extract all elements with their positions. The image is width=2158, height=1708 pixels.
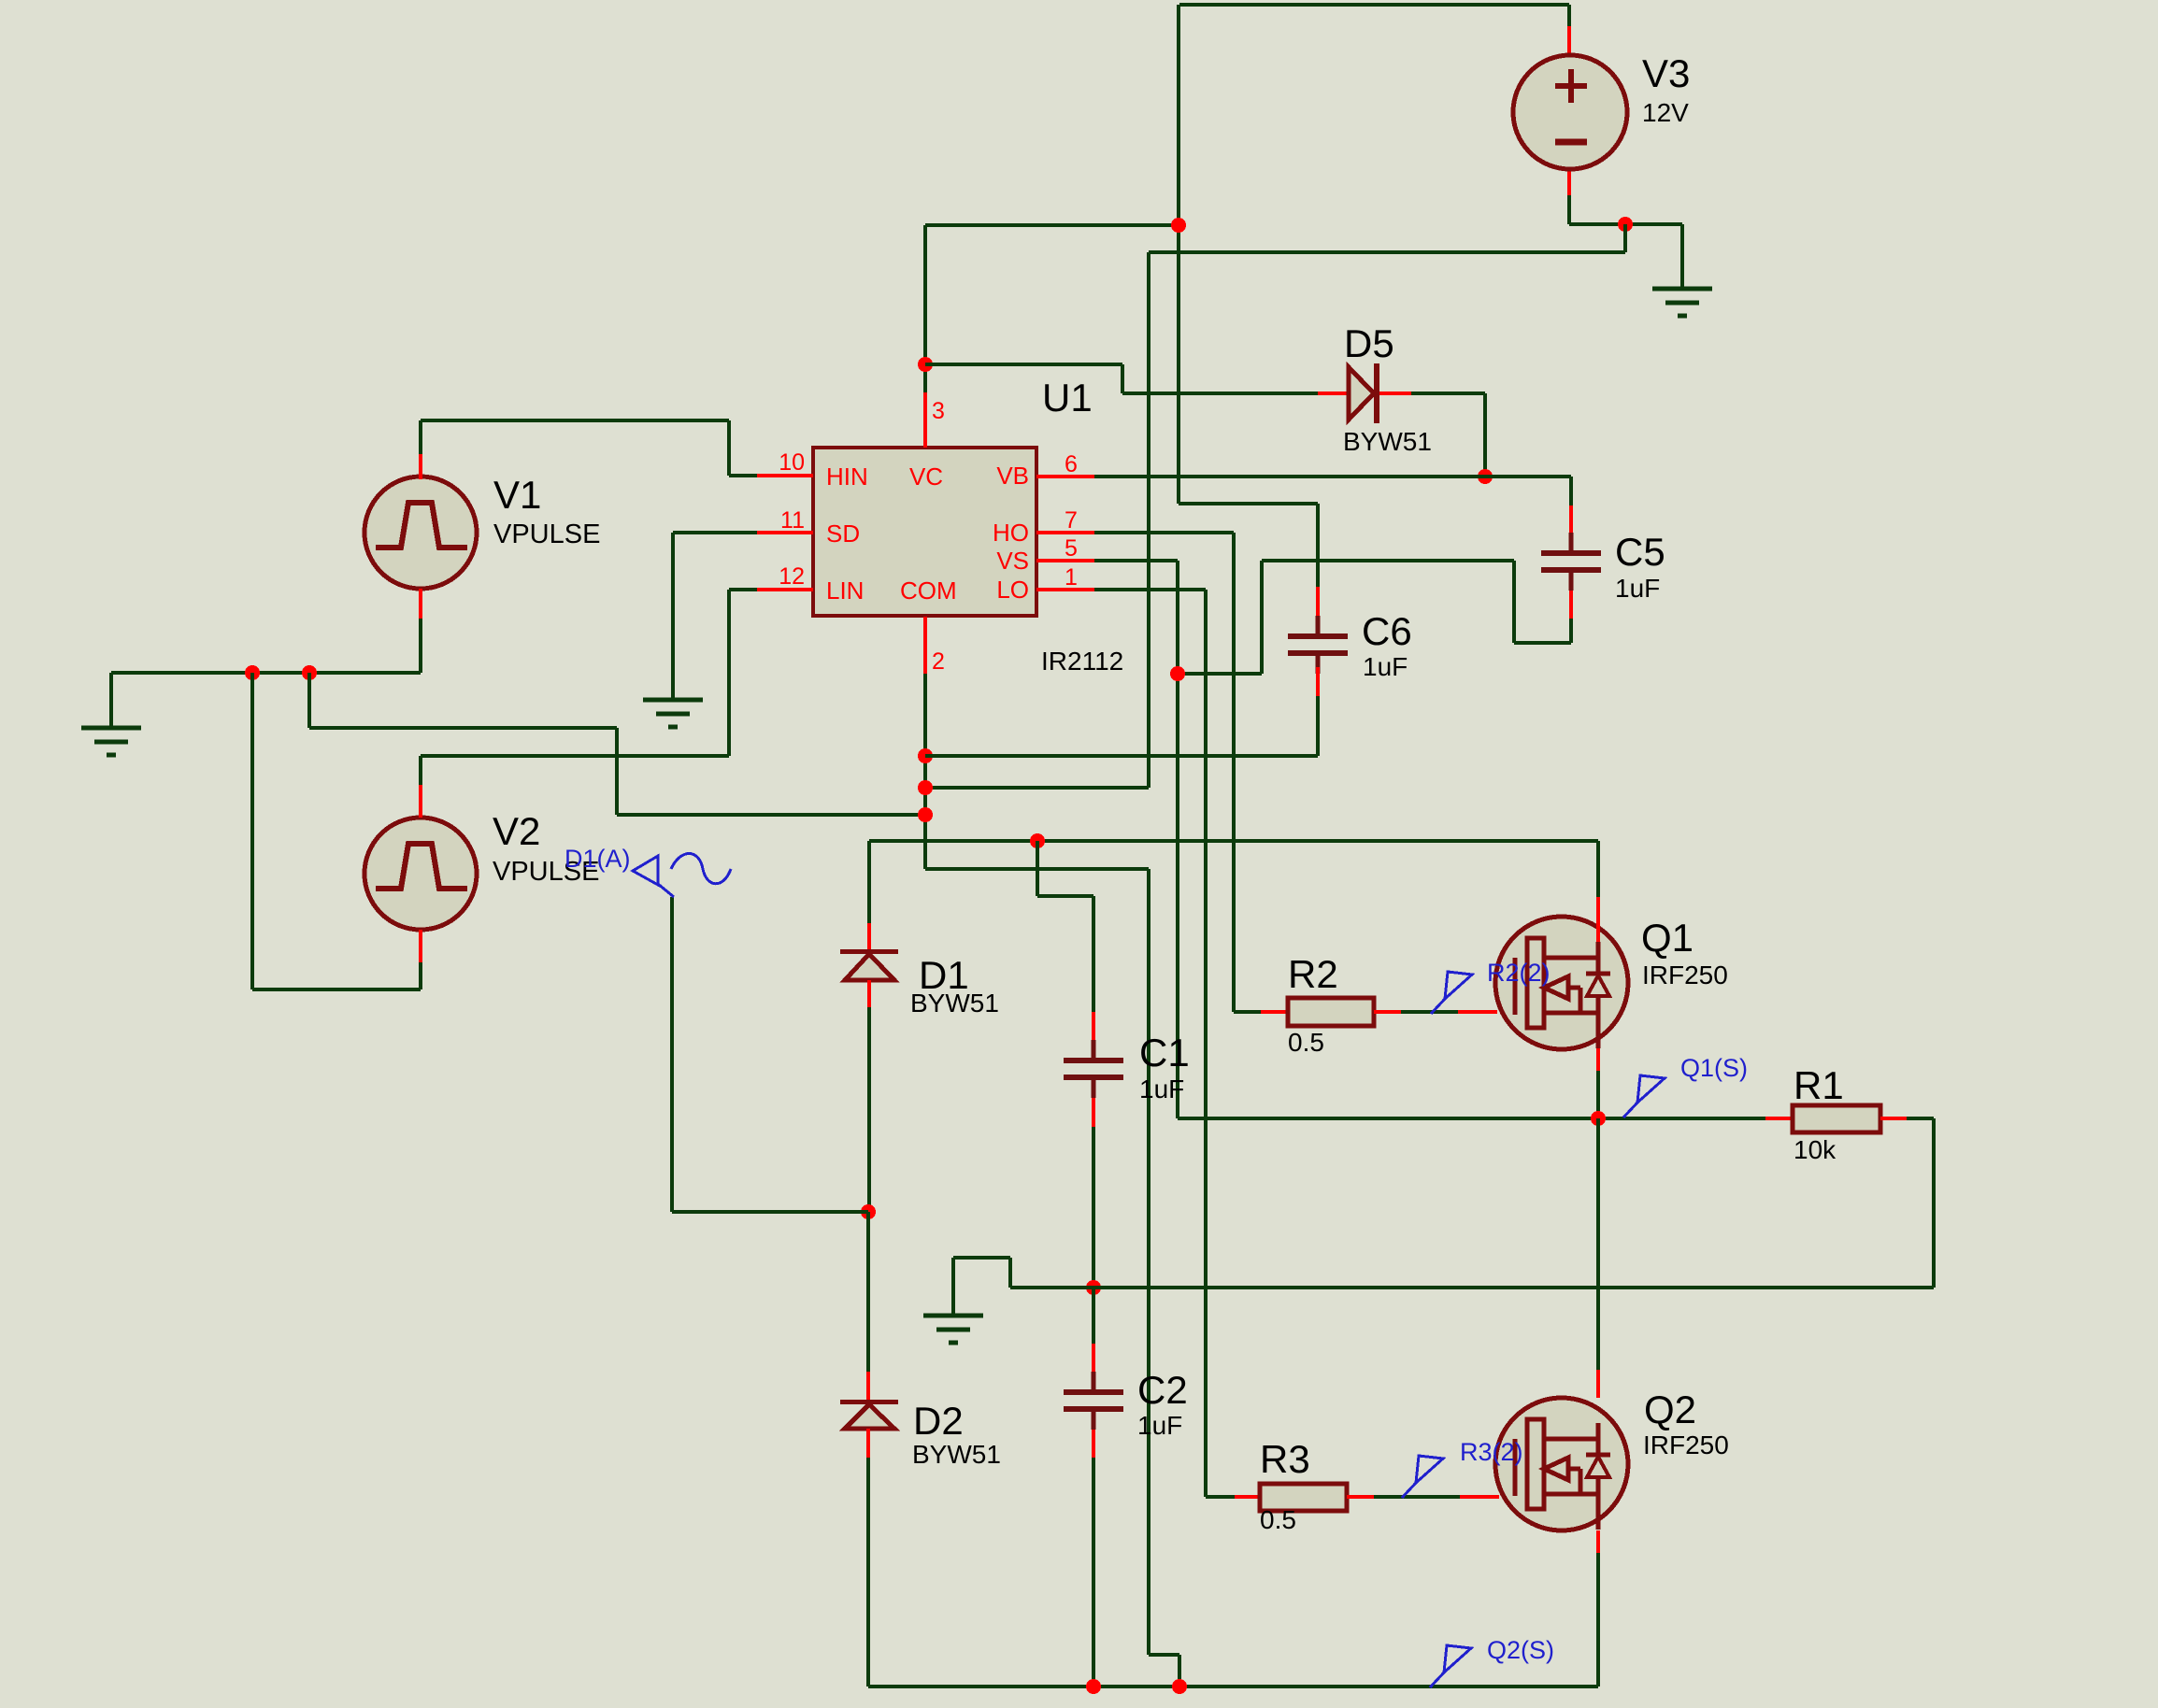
svg-text:R2(2): R2(2) bbox=[1487, 959, 1551, 987]
diode D5 BYW51 bbox=[1318, 363, 1411, 423]
R3 value label 0.5 bbox=[1260, 1505, 1296, 1534]
pin name LIN bbox=[826, 576, 864, 605]
Q2 value label IRF250 bbox=[1643, 1430, 1729, 1459]
wire ground bus to COM link bbox=[309, 673, 925, 815]
wire V1 bottom lead bbox=[419, 589, 422, 673]
wire COM column down to bottom rail bbox=[925, 674, 1179, 1687]
svg-text:BYW51: BYW51 bbox=[912, 1440, 1001, 1469]
wire C1 bottom to GND rail bbox=[1092, 1127, 1095, 1288]
wire LO to R3 bbox=[1094, 590, 1235, 1497]
pin LIN stub bbox=[757, 588, 813, 591]
wire D5 cathode to VB junction bbox=[1384, 393, 1485, 477]
R2 value label 0.5 bbox=[1288, 1028, 1324, 1057]
svg-text:R3: R3 bbox=[1260, 1437, 1310, 1481]
svg-text:6: 6 bbox=[1065, 451, 1078, 477]
wire D1 anode to node bbox=[867, 1007, 871, 1212]
D5 reference label bbox=[1344, 321, 1394, 365]
wire C5 bottom to VS net bbox=[1262, 561, 1571, 643]
pin number 1 bbox=[1065, 564, 1078, 591]
svg-text:1uF: 1uF bbox=[1615, 574, 1660, 603]
node D1 anode dot bbox=[861, 1204, 876, 1219]
resistor R3 bbox=[1235, 1484, 1374, 1511]
svg-text:V2: V2 bbox=[493, 809, 540, 853]
wire Q2 source to bottom rail bbox=[1596, 1553, 1600, 1687]
pin name LO bbox=[996, 576, 1029, 604]
U1 value label IR2112 bbox=[1041, 647, 1123, 676]
C6 value label bbox=[1363, 652, 1408, 681]
R3 reference label bbox=[1260, 1437, 1310, 1481]
wire R3 to Q2 gate bbox=[1374, 1495, 1499, 1499]
V3 reference label bbox=[1642, 51, 1690, 95]
C5 reference label bbox=[1615, 530, 1665, 574]
svg-text:VS: VS bbox=[996, 547, 1029, 575]
Q2 drain pin red bbox=[1596, 1370, 1600, 1398]
C6 reference label bbox=[1362, 609, 1412, 653]
D1 value label BYW51 bbox=[910, 989, 999, 1018]
D1(A) probe sine squiggle bbox=[671, 854, 731, 884]
pin number 7 bbox=[1065, 507, 1078, 534]
wire +12V net: top rail from V3+ down left column bbox=[1179, 5, 1569, 504]
svg-text:IR2112: IR2112 bbox=[1041, 647, 1123, 676]
Q1 source pin red bbox=[1596, 1048, 1600, 1071]
svg-text:12V: 12V bbox=[1642, 98, 1689, 127]
Q2(S) probe arrow bbox=[1430, 1645, 1471, 1687]
D2 reference label bbox=[913, 1399, 964, 1443]
svg-text:1uF: 1uF bbox=[1139, 1075, 1184, 1103]
R2 reference label bbox=[1288, 952, 1338, 996]
node D1(A) probe arrow bbox=[633, 856, 674, 897]
wire V1 top to HIN bbox=[421, 420, 757, 479]
wire C1 top link bbox=[1037, 841, 1093, 1012]
pin SD stub bbox=[757, 531, 813, 534]
wire VB to C5 top bbox=[1094, 477, 1571, 505]
svg-text:VC: VC bbox=[909, 463, 943, 491]
V1 reference label bbox=[493, 473, 541, 517]
V2 value label VPULSE bbox=[493, 857, 599, 887]
capacitor C5 bbox=[1541, 505, 1601, 643]
C2 value label bbox=[1137, 1411, 1182, 1440]
svg-text:BYW51: BYW51 bbox=[1343, 427, 1432, 456]
C1 value label bbox=[1139, 1075, 1184, 1103]
pin number 6 bbox=[1065, 451, 1078, 477]
node VC junction dot bbox=[918, 357, 933, 372]
node ground bus dot A bbox=[245, 665, 260, 680]
U1 reference label bbox=[1042, 376, 1093, 420]
Q2 reference label bbox=[1644, 1388, 1696, 1431]
svg-text:IRF250: IRF250 bbox=[1642, 961, 1728, 989]
R3(2) probe arrow bbox=[1402, 1456, 1443, 1498]
svg-text:COM: COM bbox=[900, 576, 957, 605]
pin name HO bbox=[993, 519, 1029, 547]
node bottom rail dot (C2) bbox=[1086, 1679, 1101, 1694]
wire VS midpoint rail bbox=[1178, 1071, 1765, 1118]
Q1(S) probe arrow bbox=[1623, 1075, 1665, 1117]
wire ground rail jog down-left column bbox=[1149, 224, 1625, 788]
svg-text:IRF250: IRF250 bbox=[1643, 1430, 1729, 1459]
R2(2) probe arrow bbox=[1431, 972, 1472, 1014]
voltage source V1 VPULSE body bbox=[364, 477, 477, 589]
pin number 2 bbox=[932, 648, 945, 675]
pin name COM bbox=[900, 576, 957, 605]
V1 value label VPULSE bbox=[493, 520, 600, 549]
wire ground bus drop to ground symbol bbox=[109, 673, 113, 728]
wire VS jog to C5 link bbox=[1178, 561, 1262, 674]
D5 value label BYW51 bbox=[1343, 427, 1432, 456]
svg-text:V1: V1 bbox=[493, 473, 541, 517]
wire VS pin to riser bbox=[1094, 561, 1178, 1118]
D1(A) probe label bbox=[565, 845, 631, 873]
wire SD to ground bbox=[673, 533, 757, 700]
svg-text:C6: C6 bbox=[1362, 609, 1412, 653]
ground mid ground symbol bbox=[923, 1316, 983, 1343]
wire ground-rail drop to ground symbol bbox=[1680, 224, 1684, 289]
svg-text:Q1: Q1 bbox=[1641, 916, 1694, 960]
voltage source V2 VPULSE body bbox=[364, 818, 477, 930]
wire VC feed: +12V junction to U1 VC pin bbox=[925, 225, 1179, 392]
capacitor C1 bbox=[1064, 1012, 1123, 1127]
wire D1(A) probe wire bbox=[672, 897, 868, 1212]
svg-text:1uF: 1uF bbox=[1363, 652, 1408, 681]
svg-text:BYW51: BYW51 bbox=[910, 989, 999, 1018]
svg-text:R3(2): R3(2) bbox=[1460, 1438, 1523, 1466]
capacitor C2 bbox=[1064, 1372, 1123, 1458]
node COM dot (source ground link) bbox=[918, 807, 933, 822]
diode D2 BYW51 bbox=[840, 1400, 898, 1458]
V3 value label 12V bbox=[1642, 98, 1689, 127]
pin HIN stub bbox=[757, 474, 813, 477]
wire C6 bottom to COM bbox=[925, 754, 1318, 758]
svg-text:D1(A): D1(A) bbox=[565, 845, 631, 873]
svg-text:C2: C2 bbox=[1137, 1368, 1188, 1412]
node ground bus dot B bbox=[302, 665, 317, 680]
Q2 source pin red bbox=[1596, 1530, 1600, 1553]
Q1(S) probe label bbox=[1680, 1054, 1748, 1082]
pin name HIN bbox=[826, 463, 868, 491]
svg-text:Q2: Q2 bbox=[1644, 1388, 1696, 1431]
pin COM stub bbox=[923, 617, 927, 674]
svg-text:Q1(S): Q1(S) bbox=[1680, 1054, 1748, 1082]
ground power ground at V3 bbox=[1652, 289, 1712, 316]
wire V3 bottom lead to ground rail bbox=[1569, 169, 1682, 224]
pin name VS bbox=[996, 547, 1029, 575]
svg-text:R1: R1 bbox=[1794, 1063, 1844, 1107]
svg-text:C5: C5 bbox=[1615, 530, 1665, 574]
svg-text:VPULSE: VPULSE bbox=[493, 520, 600, 549]
voltage source V3 12V body bbox=[1513, 55, 1627, 169]
pin number 3 bbox=[932, 398, 945, 424]
svg-text:1uF: 1uF bbox=[1137, 1411, 1182, 1440]
resistor R1 bbox=[1765, 1105, 1907, 1132]
wire ground rail link to COM column bbox=[925, 786, 1149, 790]
node COM dot (ground rail link) bbox=[918, 780, 933, 795]
wire bottom source rail bbox=[868, 1685, 1598, 1688]
svg-text:2: 2 bbox=[932, 648, 945, 675]
svg-text:U1: U1 bbox=[1042, 376, 1093, 420]
pin number 10 bbox=[779, 449, 805, 476]
wire HO to R2 bbox=[1094, 533, 1261, 1012]
node VS midpoint dot bbox=[1591, 1111, 1606, 1126]
svg-text:10k: 10k bbox=[1794, 1135, 1836, 1164]
pin number 5 bbox=[1065, 535, 1078, 562]
svg-text:V3: V3 bbox=[1642, 51, 1690, 95]
wire GND rail bbox=[1010, 1286, 1934, 1289]
resistor R2 bbox=[1261, 998, 1401, 1026]
svg-text:3: 3 bbox=[932, 398, 945, 424]
wire V1/V2 ground bus bbox=[111, 671, 421, 675]
svg-text:12: 12 bbox=[779, 563, 805, 590]
wire VC to D5 anode jog bbox=[925, 364, 1318, 393]
pin number 12 bbox=[779, 563, 805, 590]
pin VS stub bbox=[1036, 559, 1094, 562]
pin name VC bbox=[909, 463, 943, 491]
ground signal ground at sources bbox=[81, 728, 141, 755]
capacitor C6 bbox=[1288, 587, 1348, 756]
wire C2 top lead bbox=[1092, 1288, 1095, 1373]
wire D2 anode to bottom rail bbox=[866, 1458, 870, 1687]
node bottom rail dot (COM) bbox=[1172, 1679, 1187, 1694]
wire Q1 drain rail bbox=[869, 841, 1598, 952]
transistor Q2 IRF250 bbox=[1495, 1398, 1628, 1530]
pin number 11 bbox=[780, 507, 805, 534]
node VB junction dot (D5 cathode / C5 top) bbox=[1478, 469, 1493, 484]
node GND rail dot at C1/C2 bbox=[1086, 1280, 1101, 1295]
node V3 ground junction dot bbox=[1618, 217, 1633, 232]
wire V2 bottom return bbox=[252, 673, 421, 989]
wire V3 top lead bbox=[1567, 5, 1571, 55]
svg-text:SD: SD bbox=[826, 520, 860, 548]
svg-text:D2: D2 bbox=[913, 1399, 964, 1443]
svg-text:1: 1 bbox=[1065, 564, 1078, 591]
Q1 value label IRF250 bbox=[1642, 961, 1728, 989]
svg-text:0.5: 0.5 bbox=[1260, 1505, 1296, 1534]
ground SD ground symbol bbox=[643, 700, 703, 727]
C2 reference label bbox=[1137, 1368, 1188, 1412]
svg-text:10: 10 bbox=[779, 449, 805, 476]
C5 value label bbox=[1615, 574, 1660, 603]
svg-text:Q2(S): Q2(S) bbox=[1487, 1636, 1554, 1664]
svg-text:LO: LO bbox=[996, 576, 1029, 604]
wire +12V to C6 top bbox=[1179, 504, 1318, 587]
Q1 reference label bbox=[1641, 916, 1694, 960]
svg-text:11: 11 bbox=[780, 507, 805, 534]
node VS junction dot bbox=[1170, 666, 1185, 681]
wire V2 top to LIN bbox=[421, 590, 757, 818]
wire D2 cathode lead bbox=[866, 1212, 870, 1400]
wire Q2 drain from midpoint bbox=[1596, 1118, 1600, 1370]
node +12V junction dot at top column bbox=[1171, 218, 1186, 233]
V2 reference label bbox=[493, 809, 540, 853]
D1 reference label bbox=[919, 953, 969, 997]
svg-text:5: 5 bbox=[1065, 535, 1078, 562]
svg-text:D5: D5 bbox=[1344, 321, 1394, 365]
diode D1 BYW51 bbox=[840, 949, 898, 1007]
IC U1 IR2112 gate driver body bbox=[813, 448, 1036, 616]
R2(2) probe label bbox=[1487, 959, 1551, 987]
pin VB stub bbox=[1036, 475, 1094, 478]
svg-text:C1: C1 bbox=[1139, 1031, 1190, 1075]
wire GND rail jog to ground symbol bbox=[953, 1258, 1010, 1316]
pin name SD bbox=[826, 520, 860, 548]
wire R1 to GND rail bbox=[1907, 1118, 1934, 1288]
svg-text:LIN: LIN bbox=[826, 576, 864, 605]
svg-text:R2: R2 bbox=[1288, 952, 1338, 996]
wire C2 bottom to bottom rail bbox=[1092, 1458, 1095, 1687]
pin HO stub bbox=[1036, 531, 1094, 534]
R1 value label 10k bbox=[1794, 1135, 1836, 1164]
node Q1 drain dot (C1 link) bbox=[1030, 833, 1045, 848]
pin VC stub bbox=[923, 392, 927, 448]
Q2(S) probe label bbox=[1487, 1636, 1554, 1664]
svg-text:VB: VB bbox=[996, 462, 1029, 490]
svg-text:HIN: HIN bbox=[826, 463, 868, 491]
svg-text:7: 7 bbox=[1065, 507, 1078, 534]
D2 value label BYW51 bbox=[912, 1440, 1001, 1469]
wire R2 to Q1 gate bbox=[1401, 1010, 1497, 1014]
pin name VB bbox=[996, 462, 1029, 490]
Q1 drain pin red bbox=[1596, 897, 1600, 942]
svg-text:HO: HO bbox=[993, 519, 1029, 547]
svg-text:0.5: 0.5 bbox=[1288, 1028, 1324, 1057]
C1 reference label bbox=[1139, 1031, 1190, 1075]
R3(2) probe label bbox=[1460, 1438, 1523, 1466]
node COM dot (C6 return) bbox=[918, 748, 933, 763]
R1 reference label bbox=[1794, 1063, 1844, 1107]
pin LO stub bbox=[1036, 588, 1094, 591]
transistor Q1 IRF250 bbox=[1495, 917, 1628, 1049]
